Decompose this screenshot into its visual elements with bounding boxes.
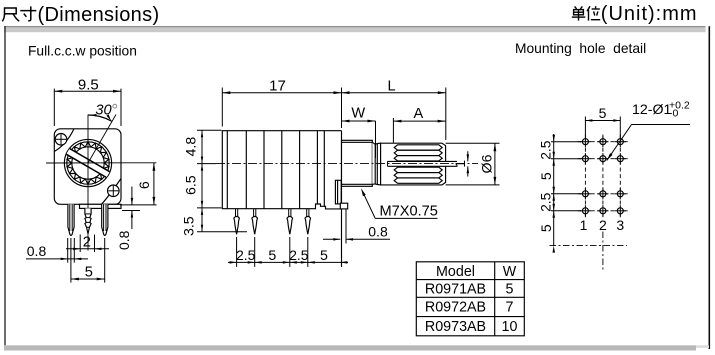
shaft outline: [381, 143, 446, 185]
unit CJK wei: [587, 6, 590, 11]
dim 5 top: [584, 117, 586, 137]
shaft centerline: [216, 163, 478, 165]
side face line: [341, 131, 343, 267]
svg-text:Mounting hole detail: Mounting hole detail: [515, 41, 646, 56]
bushing: [342, 140, 373, 186]
bushing collar rings: [372, 142, 380, 185]
mounting bottom centerline: [550, 245, 628, 247]
svg-text:3.5: 3.5: [181, 216, 197, 236]
svg-text:10: 10: [502, 319, 518, 335]
title underline band: [4, 26, 706, 32]
svg-text:2: 2: [599, 217, 607, 233]
svg-text:5: 5: [538, 172, 554, 180]
tab foot: [340, 203, 347, 209]
mounting center column extension: [602, 232, 604, 272]
front pin middle: [85, 208, 91, 233]
svg-text:5: 5: [599, 105, 607, 121]
svg-text:6: 6: [137, 181, 153, 189]
mounting holes: [582, 139, 588, 145]
svg-text:2: 2: [83, 234, 91, 250]
side pin 1: [235, 209, 237, 217]
svg-text:(Dimensions): (Dimensions): [38, 4, 160, 26]
corner arc top-left: [54, 129, 74, 152]
svg-text:17: 17: [269, 77, 286, 94]
side pin 2: [253, 209, 255, 217]
svg-text:Ø6: Ø6: [479, 154, 495, 173]
dim dia6: [446, 142, 500, 144]
svg-text:12-Ø1: 12-Ø1: [632, 102, 672, 118]
pointer line 30 deg: [88, 115, 116, 164]
table frame: [416, 262, 524, 336]
dim 17: [221, 88, 223, 127]
svg-text:2.5: 2.5: [539, 192, 554, 212]
svg-text:2.5: 2.5: [236, 248, 256, 263]
svg-text:3: 3: [616, 217, 624, 233]
svg-text:2.5: 2.5: [539, 140, 554, 160]
screw top-left: [55, 134, 67, 146]
svg-text:1: 1: [580, 217, 588, 233]
svg-text:L: L: [387, 78, 395, 94]
svg-text:R0971AB: R0971AB: [425, 281, 486, 297]
dim 5 bottom: [70, 238, 72, 283]
mounting grid column centerlines: [584, 135, 586, 218]
svg-text:Full.c.c.w position: Full.c.c.w position: [28, 44, 137, 59]
side left dims: [197, 129, 222, 131]
front pin right: [102, 204, 108, 235]
svg-text:M7X0.75: M7X0.75: [380, 204, 438, 220]
dim 0.8 bottom: [67, 238, 69, 263]
shaft slot: [388, 161, 458, 166]
title CJK chi: [5, 7, 17, 9]
dim 1 slot: [467, 151, 469, 161]
dim L: [445, 88, 447, 141]
svg-text:5: 5: [538, 224, 554, 232]
svg-text:30: 30: [95, 103, 111, 119]
corner arc bottom-right: [102, 179, 122, 205]
knob teeth ring: [67, 142, 109, 184]
angle arc 30: [88, 115, 112, 121]
svg-text:5: 5: [268, 248, 276, 264]
side bottom chain dims: [236, 237, 238, 267]
svg-text:5: 5: [320, 248, 328, 264]
knob outer circle: [64, 139, 111, 186]
dim 0.8 side: [345, 210, 347, 244]
svg-text:6.5: 6.5: [183, 175, 199, 195]
svg-text:2.5: 2.5: [289, 248, 309, 263]
leader 12-dia1: [632, 124, 691, 126]
shaft knurl: [394, 145, 442, 150]
svg-text:W: W: [503, 264, 517, 280]
svg-text:R0972AB: R0972AB: [425, 300, 486, 316]
svg-text:0.8: 0.8: [116, 230, 132, 250]
svg-text:5: 5: [85, 264, 93, 280]
front view body: [54, 129, 121, 205]
svg-text:Model: Model: [436, 264, 475, 280]
side pin 3: [288, 209, 290, 217]
side body outline: [222, 131, 341, 209]
svg-text:1: 1: [452, 160, 468, 168]
unit CJK dan: [575, 6, 577, 8]
front pin left: [68, 204, 74, 235]
anti-rotation tab: [335, 180, 341, 204]
svg-text:0.8: 0.8: [27, 243, 47, 259]
svg-text:(Unit):mm: (Unit):mm: [601, 3, 698, 25]
title CJK cun: [20, 10, 36, 12]
left border: [4, 26, 6, 345]
svg-text:7: 7: [506, 300, 514, 316]
dim 2: [79, 235, 81, 253]
svg-text:4.8: 4.8: [183, 137, 199, 157]
svg-text:5: 5: [506, 281, 514, 297]
front view bottom lip: [80, 204, 122, 208]
knob vertical centerline: [87, 115, 89, 251]
svg-text:A: A: [414, 106, 424, 122]
side body wafer lines: [226, 131, 228, 209]
dim 9.5: [53, 89, 55, 126]
knob slot: [66, 149, 110, 178]
svg-text:W: W: [351, 106, 365, 122]
side pin 4: [306, 209, 308, 217]
mounting left dims: [551, 141, 581, 143]
knob horizontal centerline: [46, 162, 156, 164]
mounting grid row centerlines: [578, 141, 629, 143]
dim A: [392, 118, 394, 143]
dim W: [375, 121, 377, 158]
dim 0.8 right: [122, 210, 140, 212]
svg-text:-0: -0: [669, 108, 678, 120]
dim 6: [120, 204, 157, 206]
svg-text:9.5: 9.5: [78, 76, 99, 93]
screw bottom-right: [108, 185, 120, 197]
svg-text:R0973AB: R0973AB: [425, 319, 486, 335]
right border: [708, 26, 710, 349]
svg-text:0.8: 0.8: [368, 223, 388, 239]
bottom shadow band: [4, 345, 696, 350]
